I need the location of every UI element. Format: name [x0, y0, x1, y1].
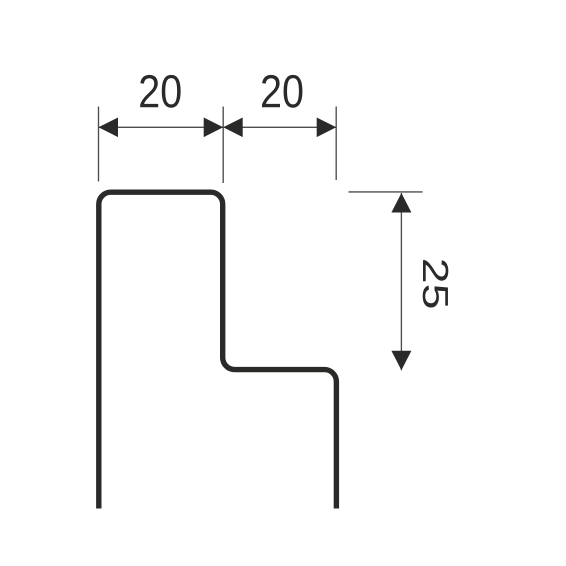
- arrow right-out (dim2 right): [317, 118, 337, 138]
- arrow up (dim25 top): [391, 193, 411, 213]
- dimension line 20 #2: [223, 126, 336, 128]
- dimension line 25 (vertical): [400, 193, 402, 370]
- label 20 #2: [262, 75, 302, 108]
- extension line right (dim 20 #2): [335, 107, 337, 181]
- arrow right-in (dim1 right): [204, 118, 224, 138]
- dimension line 20 #1: [99, 126, 224, 128]
- label 20 #1: [140, 75, 180, 108]
- arrow left-in (dim2 left): [223, 118, 243, 138]
- extension line left (dim 20 #1): [98, 107, 100, 182]
- profile outline (stepped sheet cross-section): [99, 192, 337, 508]
- arrow down (dim25 bottom): [391, 351, 411, 371]
- label 25 (rotated): [423, 260, 449, 307]
- arrow left-out (dim1 left): [99, 118, 119, 138]
- extension line top (dim 25): [349, 191, 423, 193]
- extension line middle (shared): [222, 107, 224, 184]
